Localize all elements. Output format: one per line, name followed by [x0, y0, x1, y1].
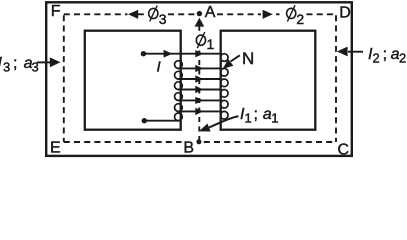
coil left curl 6: [175, 113, 183, 121]
right window: [221, 31, 316, 130]
flux label phi2: [287, 5, 296, 21]
node B junction dot: [196, 139, 201, 144]
svg-text:B: B: [183, 140, 194, 157]
turn current arrowhead on wire 3: [195, 75, 203, 82]
flux path bottom wire right of node B (dashed): [204, 141, 336, 143]
N label arrow line: [231, 55, 240, 61]
flux path center limb phi1 (dashed): [198, 27, 200, 31]
svg-text:C: C: [338, 141, 350, 158]
I2 a2 arrow line: [348, 51, 363, 53]
svg-text:2: 2: [296, 11, 304, 27]
flux label phi3: [149, 6, 158, 22]
svg-text:;: ;: [13, 55, 17, 72]
svg-text:;: ;: [254, 106, 258, 123]
coil left curl 4: [175, 93, 183, 101]
coil left curl 2: [175, 71, 183, 79]
svg-text:2: 2: [399, 50, 406, 65]
turn current arrowhead on wire 2: [195, 65, 203, 72]
coil right curl 2: [220, 68, 228, 76]
flux arrow phi2 head: [263, 10, 273, 19]
N label arrowhead: [223, 59, 234, 69]
coil top lead wire: [143, 53, 220, 55]
I2 a2 arrowhead: [337, 47, 348, 57]
svg-text:A: A: [205, 4, 216, 21]
flux path right limb (dashed): [335, 15, 337, 142]
node A junction dot: [197, 11, 202, 16]
svg-text:3: 3: [3, 59, 10, 74]
coil right curl 5: [220, 100, 228, 108]
svg-text:1: 1: [271, 110, 278, 125]
svg-text:1: 1: [207, 36, 215, 52]
flux dash after phi2 arrow: [276, 13, 280, 15]
flux path bottom wire left of node B (dashed): [64, 141, 182, 143]
I3 a3 arrowhead: [50, 57, 61, 67]
svg-text:D: D: [339, 4, 351, 21]
coil turn wire 6: [178, 110, 221, 112]
coil bottom terminal dot: [142, 118, 147, 123]
coil turn wire 2: [178, 67, 221, 69]
flux arrow phi3 head: [128, 10, 138, 19]
coil turn wire 4: [178, 89, 221, 91]
current I arrowhead on top lead: [164, 50, 173, 58]
turn current arrowhead on wire 6: [195, 108, 203, 115]
flux path left limb (dashed): [63, 15, 65, 142]
svg-text:;: ;: [383, 46, 387, 63]
I1 a1 arrowhead: [199, 124, 211, 132]
coil turn wire 3: [178, 78, 221, 80]
coil top terminal dot: [141, 51, 146, 56]
coil bottom lead wire: [144, 120, 181, 122]
svg-text:1: 1: [245, 110, 252, 125]
I3 a3 arrow line: [37, 61, 51, 63]
coil turn wire 5: [178, 99, 221, 101]
flux path top-left wire (dashed): [64, 13, 128, 15]
left window: [85, 31, 181, 130]
core outer boundary: [46, 2, 352, 156]
svg-text:E: E: [50, 140, 61, 157]
coil right curl 1: [220, 54, 228, 62]
svg-text:3: 3: [32, 59, 39, 74]
coil left curl 5: [175, 104, 183, 112]
coil right curl 4: [220, 90, 228, 98]
svg-text:I: I: [157, 58, 161, 75]
coil right curl 6: [220, 111, 228, 119]
coil right curl 3: [220, 79, 228, 87]
flux path top-right wire after phi2 (dashed): [307, 13, 337, 15]
flux arrow phi1 head (up): [195, 18, 205, 27]
turn current arrowhead on wire 4: [195, 86, 203, 93]
coil left curl 1: [175, 61, 183, 69]
I1 a1 arrow line: [209, 116, 238, 127]
flux label phi1: [195, 32, 214, 51]
flux path top wire between A and phi2 arrow (dashed): [217, 13, 261, 15]
svg-text:N: N: [242, 49, 254, 68]
svg-text:F: F: [51, 3, 61, 20]
turn current arrowhead on wire 5: [195, 97, 203, 104]
svg-text:3: 3: [159, 11, 167, 27]
coil left curl 3: [175, 82, 183, 90]
flux path top wire between phi3 and node A (dashed): [168, 13, 196, 15]
flux arrow phi3 tail: [138, 13, 144, 15]
svg-text:2: 2: [373, 50, 380, 65]
turn current arrowhead on wire 1: [195, 50, 203, 57]
